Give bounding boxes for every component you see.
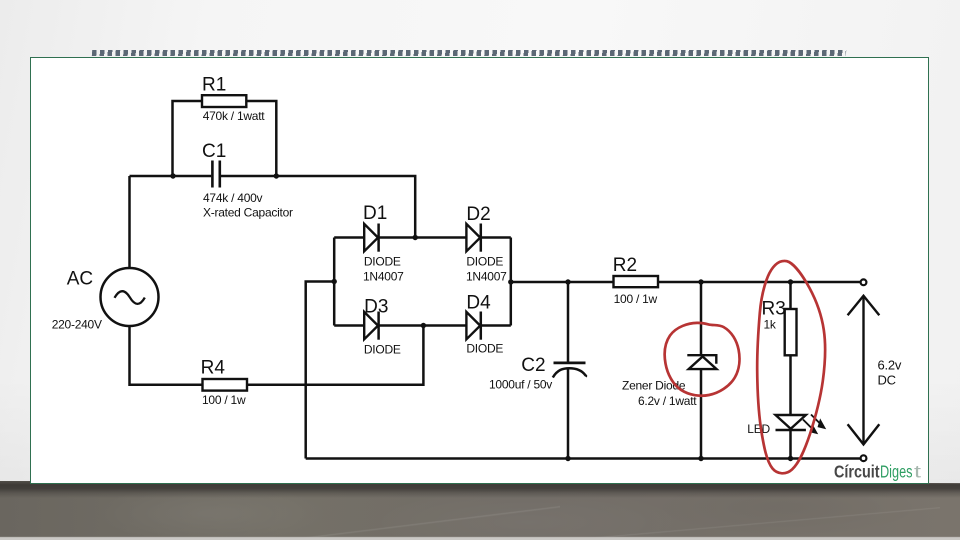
svg-text:D4: D4 [466, 292, 491, 313]
wire LED to ground rail [789, 430, 792, 459]
svg-text:1000uf / 50v: 1000uf / 50v [489, 377, 552, 391]
svg-text:D3: D3 [364, 296, 388, 317]
svg-text:LED: LED [747, 422, 770, 436]
node C1 left junction [170, 173, 175, 178]
diode D4 [466, 312, 480, 340]
node zener bottom [698, 456, 703, 461]
wire R4 right lead to bridge bottom node [247, 326, 423, 385]
wire top rail right segment to bridge top [221, 176, 415, 238]
svg-text:R2: R2 [613, 255, 637, 276]
svg-text:1N4007: 1N4007 [466, 269, 507, 283]
AC source V1 [101, 268, 159, 326]
svg-text:C1: C1 [202, 141, 226, 162]
svg-text:100 / 1w: 100 / 1w [202, 393, 246, 407]
svg-text:DIODE: DIODE [364, 254, 401, 268]
svg-text:470k / 1watt: 470k / 1watt [203, 109, 266, 123]
svg-text:1N4007: 1N4007 [363, 269, 404, 283]
wire bridge left node to ground rail [306, 282, 335, 459]
wire R1 left lead [173, 101, 203, 176]
resistor R1 [202, 95, 246, 107]
wire R1 right lead [246, 101, 276, 176]
wire zener branch lower [700, 370, 703, 459]
svg-text:R1: R1 [202, 75, 226, 96]
resistor R4 [203, 379, 248, 391]
terminal output plus [861, 279, 867, 285]
annotation red loop around R3 and LED [757, 261, 825, 473]
wire bridge bottom row [334, 324, 511, 327]
zener diode ZD1 [687, 355, 716, 369]
wire R3 branch upper [789, 282, 792, 309]
svg-text:DIODE: DIODE [466, 254, 503, 268]
svg-text:C2: C2 [521, 355, 545, 376]
diode D2 [466, 224, 480, 252]
node R3 top [788, 279, 793, 284]
node zener top [698, 279, 703, 284]
svg-text:474k / 400v: 474k / 400v [203, 191, 263, 205]
wire AC source bottom lead to R4 [130, 326, 203, 385]
svg-text:AC: AC [67, 269, 93, 290]
svg-text:220-240V: 220-240V [52, 317, 102, 331]
LED light arrows [803, 415, 824, 433]
node bridge AC bottom [421, 323, 426, 328]
capacitor C2 [553, 363, 586, 378]
wire C2 branch upper [567, 282, 570, 362]
diode D1 [364, 224, 378, 252]
svg-text:R4: R4 [201, 358, 226, 379]
output voltage arrow [848, 296, 880, 445]
wire AC source top lead [128, 176, 131, 268]
annotation red circle around zener [665, 323, 740, 396]
wire bottom ground rail [306, 457, 861, 460]
svg-text:X-rated Capacitor: X-rated Capacitor [203, 206, 293, 220]
wire top rail left segment [130, 175, 212, 178]
wire positive top rail [511, 281, 861, 284]
node bridge minus [332, 279, 337, 284]
terminal output minus [861, 455, 867, 461]
node C2 top [565, 279, 570, 284]
svg-text:DIODE: DIODE [466, 341, 503, 355]
wire R3 to LED [789, 355, 792, 415]
wire C2 branch lower [567, 369, 570, 459]
svg-text:D2: D2 [466, 204, 490, 225]
svg-text:6.2v: 6.2v [878, 358, 902, 373]
capacitor C1 plates [212, 161, 219, 188]
resistor R2 [614, 276, 659, 287]
node C1 right junction [274, 173, 279, 178]
wire bridge left vertical [333, 238, 336, 326]
svg-text:D1: D1 [363, 203, 387, 224]
diode D3 [364, 312, 378, 340]
svg-text:t: t [914, 462, 921, 482]
wire zener branch upper [700, 282, 703, 355]
LED D5 [776, 415, 806, 430]
svg-text:DIODE: DIODE [364, 342, 401, 356]
svg-text:DC: DC [878, 373, 896, 388]
svg-text:100 / 1w: 100 / 1w [614, 292, 658, 306]
wire bridge top row [334, 236, 511, 239]
node bridge plus [508, 279, 513, 284]
resistor R3 [785, 309, 797, 355]
wire bridge right vertical [510, 238, 513, 326]
svg-text:Círcuit: Círcuit [834, 462, 880, 482]
svg-text:6.2v / 1watt: 6.2v / 1watt [638, 394, 697, 408]
node LED bottom [788, 456, 793, 461]
logo CircuitDigest [834, 462, 921, 482]
node C2 bottom [565, 456, 570, 461]
svg-text:1k: 1k [764, 317, 777, 331]
svg-text:Diges: Diges [880, 462, 913, 482]
node bridge AC top [413, 235, 418, 240]
